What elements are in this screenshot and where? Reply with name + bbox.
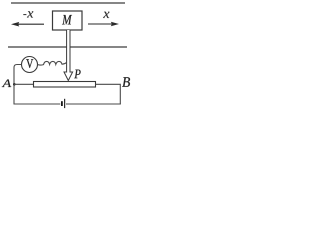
arrow left: [11, 22, 44, 27]
wire voltmeter left, corner, down to A, down to bottom rail: [14, 65, 22, 105]
label A glyph: [2, 80, 11, 88]
label M glyph: [62, 15, 72, 24]
battery short thick plate: [61, 101, 63, 106]
label B glyph: [122, 77, 130, 87]
wire flexible wavy from V to rod: [38, 61, 67, 65]
arrow right: [88, 22, 119, 27]
voltmeter V glyph: [26, 59, 33, 68]
voltmeter V circle: [22, 57, 38, 73]
wire top track line: [11, 2, 125, 4]
label P glyph: [74, 70, 80, 79]
wire bottom rail left: [14, 103, 61, 105]
wire resistor to B corner and down: [96, 84, 121, 104]
mass M box: [53, 11, 83, 30]
wire bottom track line (table surface): [8, 46, 127, 48]
rod pointer arrow from M down to slider P: [64, 30, 73, 81]
wire bottom rail right: [66, 103, 121, 105]
resistor potentiometer track: [34, 82, 96, 88]
label -x glyph x: [27, 11, 33, 17]
node A junction dot: [13, 83, 16, 86]
label -x minus sign: [23, 14, 26, 16]
wire A to resistor: [14, 83, 34, 85]
battery long thin plate: [64, 99, 65, 108]
label x glyph (right): [103, 12, 109, 18]
